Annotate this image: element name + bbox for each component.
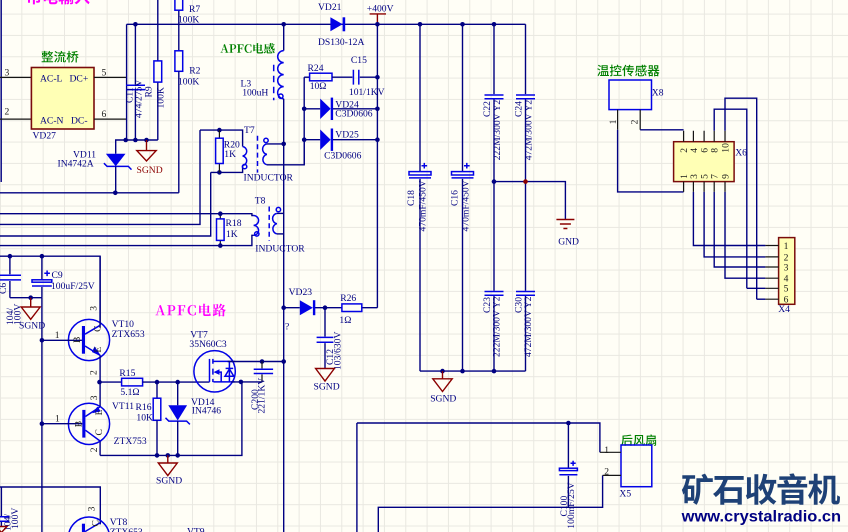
svg-text:R18: R18 <box>226 218 242 229</box>
svg-text:222M/300V Y2: 222M/300V Y2 <box>492 296 503 357</box>
transistor VT8 ZTX653 (clipped) <box>68 506 143 532</box>
wire +400V top rail <box>127 23 526 25</box>
svg-text:3: 3 <box>784 262 789 273</box>
wire X8 pin2 to X6 pin2 <box>640 129 683 131</box>
svg-text:100K: 100K <box>178 77 199 88</box>
svg-text:1: 1 <box>608 119 619 124</box>
svg-text:X5: X5 <box>619 488 631 499</box>
svg-text:1Ω: 1Ω <box>339 315 351 326</box>
wire main vertical x283.7 <box>283 99 285 532</box>
svg-text:103/630V: 103/630V <box>332 332 343 370</box>
node red junction <box>523 179 528 184</box>
wire X6 pin8 loop <box>714 109 747 288</box>
svg-text:B: B <box>74 421 85 427</box>
label APFC电感 <box>220 43 274 54</box>
connector X6 <box>674 142 748 182</box>
rectifier bridge VD27 <box>31 68 94 130</box>
svg-text:X6: X6 <box>735 147 747 158</box>
connector X8 <box>608 80 664 130</box>
transistor VT10 ZTX653 <box>42 256 145 382</box>
svg-text:E: E <box>94 409 105 415</box>
svg-text:E: E <box>93 347 104 353</box>
resistor R15 5.1ohm <box>119 368 209 398</box>
ground SGND (near bridge) <box>137 140 163 176</box>
svg-text:VT9: VT9 <box>187 527 205 532</box>
svg-text:474/275V: 474/275V <box>133 80 144 118</box>
connector X5 <box>600 445 652 500</box>
svg-text:100K: 100K <box>178 15 199 26</box>
svg-text:100uF/25V: 100uF/25V <box>51 281 95 292</box>
wire collector feed y487 <box>0 487 100 524</box>
power port +400V <box>367 3 394 24</box>
svg-text:R26: R26 <box>340 293 356 304</box>
node rail junctions <box>133 22 496 27</box>
svg-text:3: 3 <box>89 395 100 400</box>
diode VD24 C3D0606 <box>304 98 377 120</box>
svg-text:3: 3 <box>689 174 700 179</box>
inductor L3 <box>241 24 284 100</box>
svg-text:INDUCTOR: INDUCTOR <box>244 172 294 183</box>
svg-text:VD23: VD23 <box>289 287 313 298</box>
wire pin5 from DC+ <box>94 76 127 78</box>
svg-text:100V: 100V <box>10 508 21 529</box>
svg-text:3: 3 <box>88 306 99 311</box>
label 温控传感器 <box>597 65 659 77</box>
electrolytic capacitor C16 470mF/450V <box>450 24 474 371</box>
X6 top pin stubs <box>684 131 725 142</box>
wire source-ground row <box>100 382 242 456</box>
svg-text:SGND: SGND <box>430 394 456 405</box>
svg-text:VD27: VD27 <box>33 131 57 142</box>
resistor R26 <box>325 293 377 326</box>
svg-text:R9: R9 <box>143 86 154 97</box>
wire X6 pin9 to X4 pin4 <box>725 192 765 278</box>
capacitor C24 472M/300V Y2 <box>514 24 535 181</box>
wire X6 pin10 loop <box>725 98 757 299</box>
wire T7 secondary bottom <box>267 140 304 165</box>
svg-text:R7: R7 <box>189 4 200 15</box>
ground SGND (bulk caps) <box>430 371 456 405</box>
resistor R9 <box>143 0 166 140</box>
wire Y2 midpoint to GND <box>494 182 565 220</box>
svg-text:B: B <box>72 337 83 343</box>
wire T8 secondary top <box>277 212 284 214</box>
svg-text:VD25: VD25 <box>335 129 359 140</box>
wire bus B <box>0 214 254 216</box>
svg-text:10Ω: 10Ω <box>310 81 327 92</box>
transformer T7 primary rail top <box>200 130 243 146</box>
ground SGND (row 455) <box>156 455 182 486</box>
wire pin3 to bridge <box>0 76 31 78</box>
svg-text:100uH: 100uH <box>242 87 268 98</box>
svg-text:1: 1 <box>55 414 60 425</box>
wire transistor base bus x41.9 <box>41 298 43 532</box>
resistor R24 <box>304 63 352 92</box>
svg-text:101/1KV: 101/1KV <box>349 87 385 98</box>
zener diode VD14 IN4746 <box>166 382 222 455</box>
svg-text:472M/300V Y2: 472M/300V Y2 <box>523 296 534 357</box>
svg-text:DC-: DC- <box>71 116 88 127</box>
svg-text:9: 9 <box>720 174 731 179</box>
svg-text:1: 1 <box>784 241 789 252</box>
svg-text:C: C <box>94 429 105 435</box>
svg-text:DC+: DC+ <box>70 74 89 85</box>
transformer T8 right winding <box>273 213 277 234</box>
svg-text:100K: 100K <box>156 87 167 108</box>
transformer T8 core <box>268 207 270 241</box>
svg-text:C9: C9 <box>52 270 63 281</box>
wire pin2 to bridge <box>0 118 31 120</box>
svg-text:SGND: SGND <box>137 165 163 176</box>
wire emitter node row <box>100 381 122 383</box>
svg-text:IN4746: IN4746 <box>192 406 222 417</box>
svg-text:X4: X4 <box>778 304 790 315</box>
connector X4 <box>765 238 794 315</box>
title 市电输入 (clipped at top) <box>27 0 90 4</box>
svg-text:35N60C3: 35N60C3 <box>189 339 227 350</box>
wire left edge vertical <box>0 0 2 182</box>
electrolytic capacitor C100 100mF/25V <box>559 423 577 529</box>
watermark 矿石收音机 <box>682 473 840 505</box>
svg-text:C6: C6 <box>0 283 9 294</box>
svg-text:VT11: VT11 <box>112 401 134 412</box>
transistor VT11 ZTX753 <box>42 382 147 455</box>
capacitor C6 104/100V <box>0 256 24 325</box>
wire bulk cap ground bus <box>420 370 526 372</box>
wire bus E <box>0 235 254 245</box>
wire fan loop bottom <box>378 475 602 532</box>
svg-text:www.crystalradio.cn: www.crystalradio.cn <box>681 509 841 526</box>
wire X6 pin7 to X4 pin3 <box>714 192 765 267</box>
capacitor at left edge 104/100V (clipped) <box>0 487 21 531</box>
svg-text:AC-L: AC-L <box>40 74 63 85</box>
label 后风扇 <box>621 434 656 446</box>
capacitor C200 221/1KV <box>250 362 273 414</box>
ground GND earth symbol <box>556 220 579 248</box>
capacitor C30 472M/300V Y2 <box>513 182 535 372</box>
resistor R18 <box>217 214 242 246</box>
svg-text:472M/300V Y2: 472M/300V Y2 <box>524 100 535 161</box>
svg-text:SGND: SGND <box>314 382 340 393</box>
svg-text:VD21: VD21 <box>318 2 342 13</box>
ground SGND (C12) <box>314 369 340 393</box>
svg-text:C3D0606: C3D0606 <box>335 109 373 120</box>
svg-text:10: 10 <box>720 143 731 153</box>
svg-text:4: 4 <box>689 148 700 153</box>
zener diode VD11 IN4742A <box>58 149 132 193</box>
wire X8 pin1 to X6 pin1 <box>618 130 684 192</box>
svg-text:5: 5 <box>784 284 789 295</box>
svg-text:100mF/25V: 100mF/25V <box>566 482 577 528</box>
svg-text:470mF/450V: 470mF/450V <box>461 180 472 231</box>
svg-text:1K: 1K <box>224 149 236 160</box>
diode VD21 DS130-12A <box>318 2 364 48</box>
wire DC- row <box>116 140 158 154</box>
wire T8 secondary bottom <box>277 233 284 235</box>
label 整流桥 <box>42 51 79 63</box>
svg-text:222M/300V Y2: 222M/300V Y2 <box>492 100 503 161</box>
svg-text:C15: C15 <box>351 55 367 66</box>
electrolytic capacitor C18 470mF/450V <box>406 24 431 371</box>
capacitor C23 222M/300V Y2 <box>482 182 504 372</box>
svg-text:3: 3 <box>86 506 97 511</box>
svg-text:221/1KV: 221/1KV <box>257 378 268 414</box>
svg-text:1: 1 <box>604 445 609 456</box>
svg-text:2: 2 <box>630 119 641 124</box>
svg-text:R24: R24 <box>308 63 324 74</box>
svg-text:T8: T8 <box>255 195 266 206</box>
wire +400V vertical <box>376 24 378 307</box>
wire net A y192.8 <box>0 192 179 194</box>
svg-text:2: 2 <box>89 370 100 375</box>
svg-text:5: 5 <box>102 68 107 79</box>
capacitor C15 <box>349 55 385 98</box>
svg-text:ZTX653: ZTX653 <box>112 329 145 340</box>
T8 polarity dot right <box>276 207 280 211</box>
wire drain to node <box>228 361 284 363</box>
ground SGND (C6/C9) <box>19 298 45 332</box>
svg-text:2: 2 <box>604 466 609 477</box>
wire C6-C9 bottom row <box>10 297 42 299</box>
transformer T7 core <box>257 136 259 173</box>
X6 bottom pin stubs <box>684 182 725 192</box>
wire pin6 from DC- <box>94 118 127 120</box>
svg-text:R2: R2 <box>189 65 200 76</box>
svg-text:6: 6 <box>102 109 107 120</box>
electrolytic capacitor C9 100uF/25V <box>32 256 95 298</box>
svg-text:IN4742A: IN4742A <box>58 158 94 169</box>
resistor R7 (clipped top) <box>175 0 200 51</box>
svg-text:SGND: SGND <box>156 476 182 487</box>
resistor R16 10K <box>136 382 161 455</box>
svg-text:ZTX653: ZTX653 <box>110 527 143 532</box>
T8 polarity dot left <box>255 232 259 236</box>
svg-text:+400V: +400V <box>367 3 394 14</box>
svg-text:C18: C18 <box>406 190 417 206</box>
wire X6 pin5 to X4 pin2 <box>704 192 765 257</box>
MOSFET VT7 35N60C3 <box>189 329 235 392</box>
diode VD25 C3D0606 <box>304 129 377 162</box>
svg-text:C3D0606: C3D0606 <box>324 151 362 162</box>
svg-text:1: 1 <box>55 330 60 341</box>
transformer T7 left winding <box>243 147 247 166</box>
svg-text:GND: GND <box>558 237 579 248</box>
svg-text:DS130-12A: DS130-12A <box>318 37 364 48</box>
T7 polarity dot right <box>264 138 268 142</box>
svg-text:ZTX753: ZTX753 <box>114 436 147 447</box>
label APFC电路 <box>155 304 225 317</box>
resistor R20 <box>216 130 240 172</box>
svg-text:3: 3 <box>5 68 10 79</box>
svg-text:C: C <box>90 520 101 526</box>
svg-text:R15: R15 <box>119 368 135 379</box>
svg-text:C: C <box>93 325 104 331</box>
svg-text:470mF/450V: 470mF/450V <box>417 180 428 231</box>
capacitor C11 <box>124 24 145 140</box>
diode VD23 <box>284 287 325 332</box>
capacitor C22 222M/300V Y2 <box>482 24 503 181</box>
ground SGND (left edge, clipped) <box>0 527 7 532</box>
capacitor C12 103/630V <box>317 308 344 370</box>
wire X6 pin3 to X4 pin1 <box>693 192 765 246</box>
svg-text:2: 2 <box>5 107 10 118</box>
wire fan loop top <box>357 423 600 452</box>
wire source to C200 <box>231 381 262 383</box>
svg-text:5.1Ω: 5.1Ω <box>120 387 139 398</box>
transformer T7 primary rail bottom <box>211 166 243 173</box>
svg-text:INDUCTOR: INDUCTOR <box>255 244 305 255</box>
wire DC vertical x126.6 <box>126 24 128 140</box>
svg-text:R16: R16 <box>136 402 152 413</box>
svg-text:?: ? <box>285 321 289 332</box>
svg-text:AC-N: AC-N <box>40 116 64 127</box>
transformer T8 left winding <box>254 216 259 236</box>
svg-text:X8: X8 <box>652 87 664 98</box>
wire R24 branch vertical <box>303 77 305 165</box>
wire bus C <box>0 130 200 224</box>
wire loop to X4 pin5 <box>747 287 766 289</box>
svg-text:1K: 1K <box>226 229 238 240</box>
svg-text:C16: C16 <box>450 190 461 206</box>
wire loop to X4 pin6 <box>757 298 766 300</box>
svg-text:7: 7 <box>710 174 721 179</box>
wire bus D <box>0 172 211 236</box>
T7 polarity dot left <box>242 164 246 168</box>
svg-text:10K: 10K <box>136 413 153 424</box>
svg-text:8: 8 <box>710 148 721 153</box>
svg-text:T7: T7 <box>244 125 255 136</box>
wire T7 secondary top <box>267 143 284 145</box>
transformer T7 right winding <box>263 144 267 165</box>
resistor R2 <box>175 51 201 193</box>
wire net F <box>0 256 100 328</box>
svg-text:2: 2 <box>89 447 100 452</box>
